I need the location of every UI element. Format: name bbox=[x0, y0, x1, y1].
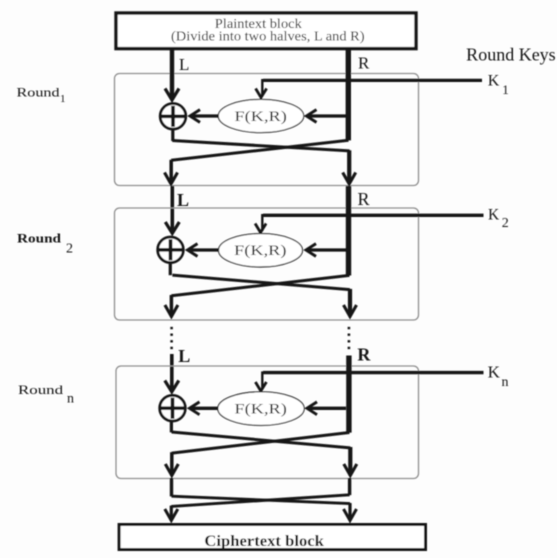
svg-text:1: 1 bbox=[502, 82, 509, 97]
wire left into ciphertext bbox=[170, 506, 173, 519]
arrowhead right output round 2 bbox=[344, 305, 357, 317]
svg-text:K: K bbox=[488, 72, 500, 89]
wire right into ciphertext bbox=[348, 503, 351, 519]
wire left below round n bbox=[170, 478, 173, 496]
svg-text:2: 2 bbox=[502, 216, 509, 231]
wire XOR1 output down bbox=[171, 129, 174, 141]
wire right below round n bbox=[348, 478, 351, 495]
XORn circle bbox=[160, 395, 186, 421]
wire L into round 2 bbox=[171, 186, 175, 232]
F function ellipse F2 bbox=[219, 234, 303, 267]
wire F1 to XOR1 bbox=[192, 114, 219, 117]
svg-text:F(K,R): F(K,R) bbox=[234, 401, 287, 417]
wire R to F1 bbox=[308, 114, 346, 117]
arrowhead left output round 2 bbox=[165, 305, 178, 317]
XOR2 plus vertical bbox=[169, 239, 173, 260]
arrowhead into F1 right bbox=[307, 110, 317, 123]
wire left output round n bbox=[170, 452, 174, 474]
svg-text:K: K bbox=[488, 206, 500, 223]
wire XORn output down bbox=[170, 421, 173, 433]
arrowhead right output round 1 bbox=[343, 173, 356, 185]
dotted wire left bbox=[170, 327, 173, 350]
svg-text:1: 1 bbox=[60, 93, 66, 105]
wire left output round 1 bbox=[169, 160, 173, 183]
svg-text:Round: Round bbox=[18, 382, 64, 397]
dotted wire right bbox=[348, 327, 351, 350]
svg-text:L: L bbox=[177, 190, 189, 210]
F function ellipse Fn bbox=[218, 392, 304, 426]
svg-text:n: n bbox=[502, 375, 509, 390]
wire right output round 2 bbox=[348, 289, 352, 315]
arrowhead left into ciphertext bbox=[165, 509, 178, 521]
svg-text:n: n bbox=[67, 392, 74, 407]
wire K1 drop into F bbox=[261, 79, 263, 96]
XORn plus vertical bbox=[171, 398, 175, 419]
arrowhead right into ciphertext bbox=[344, 509, 357, 521]
round 2 box bbox=[115, 208, 419, 320]
arrowhead Kn into Fn bbox=[255, 382, 266, 391]
arrowhead into XORn bbox=[190, 402, 200, 415]
wire XOR2 diagonal to right (D1) bbox=[172, 275, 349, 290]
wire R to F2 bbox=[308, 248, 347, 251]
arrowhead K2 into F2 bbox=[255, 224, 266, 233]
wire XOR2 output down bbox=[169, 263, 172, 276]
XOR1 circle bbox=[160, 104, 186, 130]
svg-text:R: R bbox=[358, 54, 370, 73]
svg-text:L: L bbox=[179, 55, 189, 74]
round n box bbox=[116, 366, 419, 479]
arrowhead L into XOR2 bbox=[165, 222, 179, 233]
arrowhead right output round n bbox=[344, 464, 357, 476]
svg-text:(Divide into two halves, L and: (Divide into two halves, L and R) bbox=[171, 30, 365, 45]
wire L into round n bbox=[170, 354, 174, 390]
wire R1 diagonal to left (D2) bbox=[171, 140, 348, 160]
wire F2 to XOR2 bbox=[189, 248, 219, 251]
arrowhead left output round n bbox=[165, 464, 178, 476]
wire R through round n bbox=[346, 356, 351, 433]
wire R through round 1 bbox=[346, 49, 351, 140]
arrowhead into Fn right bbox=[307, 402, 317, 415]
arrowhead left output round 1 bbox=[165, 173, 178, 185]
svg-text:Ciphertext block: Ciphertext block bbox=[204, 533, 324, 550]
wire Kn drop into F bbox=[261, 371, 263, 389]
wire K2 horizontal bbox=[263, 214, 484, 217]
round 1 box bbox=[115, 74, 419, 186]
wire R through round 2 bbox=[346, 186, 351, 276]
svg-text:R: R bbox=[357, 345, 371, 365]
ciphertext block box bbox=[119, 525, 425, 550]
arrowhead into F2 right bbox=[306, 244, 316, 257]
wire Kn horizontal bbox=[263, 371, 484, 374]
wire right output round 1 bbox=[347, 150, 351, 182]
svg-text:F(K,R): F(K,R) bbox=[234, 109, 287, 125]
wire K2 drop into F bbox=[261, 214, 263, 231]
arrowhead into XOR2 bbox=[188, 244, 198, 257]
wire right output round n bbox=[348, 447, 352, 474]
svg-text:L: L bbox=[178, 346, 190, 366]
svg-text:2: 2 bbox=[66, 241, 73, 256]
arrowhead L into XORn bbox=[165, 381, 179, 392]
svg-text:R: R bbox=[358, 189, 370, 209]
wire R2 diagonal to left (D2) bbox=[171, 275, 349, 295]
svg-text:K: K bbox=[488, 363, 501, 382]
XOR2 circle bbox=[158, 237, 184, 263]
arrowhead into XOR1 bbox=[190, 110, 200, 123]
wire Fn to XORn bbox=[191, 407, 218, 410]
wire Rn diagonal to left (D2) bbox=[172, 433, 350, 454]
XORn plus horizontal bbox=[160, 406, 185, 410]
arrowhead L into XOR1 bbox=[165, 89, 179, 101]
wire L into round 1 bbox=[170, 49, 174, 99]
F function ellipse F1 bbox=[218, 99, 303, 132]
XOR1 plus horizontal bbox=[161, 114, 186, 118]
wire final diagonal to right bbox=[172, 496, 351, 503]
wire final diagonal to left bbox=[171, 495, 349, 507]
wire XORn diagonal to right (D1) bbox=[172, 432, 351, 448]
XOR1 plus vertical bbox=[171, 106, 175, 127]
wire R to Fn bbox=[309, 407, 347, 410]
wire XOR1 diagonal to right (D1) bbox=[172, 141, 349, 151]
svg-text:Round: Round bbox=[17, 85, 61, 100]
XOR2 plus horizontal bbox=[158, 248, 183, 252]
svg-text:Round: Round bbox=[17, 231, 62, 246]
arrowhead K1 into F1 bbox=[256, 89, 267, 98]
plaintext block box bbox=[116, 13, 416, 49]
wire left output round 2 bbox=[170, 295, 174, 315]
svg-text:F(K,R): F(K,R) bbox=[234, 243, 287, 259]
svg-text:Round Keys: Round Keys bbox=[466, 45, 556, 65]
wire K1 horizontal bbox=[263, 79, 482, 82]
